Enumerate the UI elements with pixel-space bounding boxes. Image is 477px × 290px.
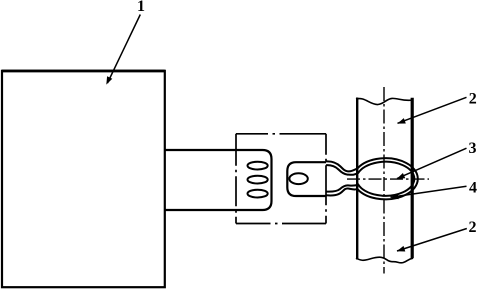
svg-text:3: 3	[469, 140, 477, 157]
work coil tube inner edge	[326, 162, 414, 196]
arrowhead for label 4	[390, 193, 398, 199]
wire + primary coil outline (top lead, right vertical, bottom lead)	[165, 150, 272, 210]
pipe left wall	[356, 98, 358, 260]
secondary coil turn	[289, 173, 307, 184]
transformer enclosure bottom edge (chain line)	[236, 223, 326, 225]
primary coil turn 2	[248, 176, 268, 184]
pipe bottom break line	[356, 257, 413, 263]
box 1 top edge (thicker scan line)	[2, 70, 165, 73]
pipe top break line	[356, 98, 413, 104]
pipe right wall	[411, 98, 414, 258]
arrowhead for top label 2	[397, 118, 406, 124]
leader line for label 4	[391, 186, 467, 197]
arrowhead for label 1	[106, 76, 112, 84]
primary coil turn 3	[248, 190, 268, 198]
leader line for top label 2	[398, 97, 467, 123]
svg-text:4: 4	[469, 180, 477, 197]
svg-text:2: 2	[469, 219, 477, 236]
svg-text:1: 1	[137, 0, 145, 15]
transformer enclosure left edge (chain line)	[235, 134, 237, 224]
svg-text:2: 2	[469, 91, 477, 108]
transformer enclosure right edge (chain line)	[325, 134, 327, 224]
leader line for label 3	[397, 148, 467, 178]
leader line for label 1	[108, 15, 141, 84]
arrowhead for bottom label 2	[397, 246, 406, 252]
box 1 (power source rectangle)	[2, 71, 165, 287]
work coil tube outer edge	[326, 158, 418, 199]
secondary coil outline	[287, 162, 326, 196]
pipe centerline (vertical chain line)	[383, 87, 385, 274]
primary coil turn 1	[248, 162, 268, 170]
arrowhead for label 3	[397, 173, 406, 179]
coil axis centerline (horizontal chain line)	[347, 178, 429, 180]
leader line for bottom label 2	[397, 229, 467, 252]
transformer enclosure top edge (chain line)	[236, 133, 326, 135]
